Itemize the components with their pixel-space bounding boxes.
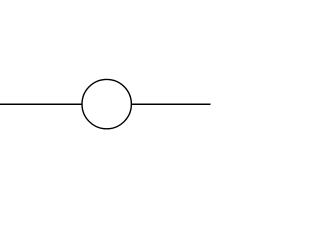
wire right [131, 103, 210, 105]
wire left [0, 103, 82, 105]
source symbol (circle) [82, 79, 131, 128]
